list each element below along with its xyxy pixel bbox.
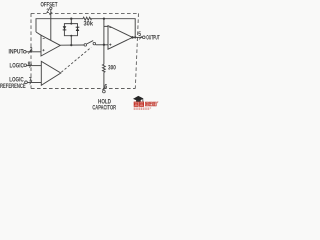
IC package dashed boundary: left edge	[30, 13, 32, 88]
op-amp A2 (output buffer)	[108, 26, 133, 50]
wire: rail corner diagonal into A1 top corner	[36, 32, 41, 35]
wire: resistor down to pin 6	[103, 72, 105, 90]
op-amp A1 (input buffer)	[41, 35, 60, 56]
node: diode loop top	[70, 23, 72, 25]
pin 3 INPUT terminal	[23, 50, 26, 53]
watermark cap icon	[133, 96, 144, 101]
pin 6 HOLD CAPACITOR terminal	[103, 90, 106, 93]
svg-text:300: 300	[108, 64, 116, 71]
wire: switch to hold node / A2 input	[96, 44, 109, 46]
dashed switch control line from comparator to switch arm	[61, 47, 91, 72]
IC package dashed boundary: top edge	[31, 12, 139, 14]
switch arm	[87, 41, 94, 44]
pin 2 OFFSET terminal	[50, 7, 52, 9]
node: rail feedback joins output	[134, 36, 136, 38]
A2 minus mark	[109, 27, 111, 29]
watermark logo (bottom right)	[133, 96, 158, 109]
wire: A2 output to pin 5	[133, 36, 143, 38]
IC package dashed boundary: bottom edge	[31, 88, 135, 90]
diode D1 (left leg, pointing down)	[63, 26, 67, 29]
pin 6 tick	[102, 87, 105, 90]
node: diode loop bottom	[70, 35, 72, 37]
pin 8 tick	[29, 64, 31, 68]
svg-text:INPUT: INPUT	[9, 49, 25, 56]
svg-text:OUTPUT: OUTPUT	[146, 35, 160, 42]
svg-text:6: 6	[104, 83, 107, 90]
pin 2 tick	[50, 12, 53, 15]
wire: rail down past A2 inverting input to hold node	[104, 19, 108, 45]
node: A2 output junction	[131, 36, 134, 39]
pin 8 LOGIC terminal	[24, 64, 27, 67]
svg-text:REFERENCE: REFERENCE	[0, 83, 26, 90]
A1 minus mark	[43, 38, 45, 40]
IC package dashed boundary: right edge (slightly skewed)	[135, 13, 138, 88]
A1 plus mark	[42, 49, 44, 51]
wire: A1 output to switch	[60, 44, 84, 46]
wire: feedback rail from A1 inverting input along top to output node	[36, 19, 135, 38]
resistor 300 (vertical)	[103, 64, 106, 72]
watermark tiny url text row	[134, 108, 152, 109]
node: rail to A2 feedback vertical	[103, 18, 105, 20]
wire: INPUT to A1	[26, 51, 41, 53]
diode D2 (right leg, pointing up)	[76, 26, 80, 28]
pin 7 tick	[30, 81, 32, 85]
svg-text:2: 2	[46, 8, 49, 15]
svg-text:30k: 30k	[84, 21, 94, 28]
switch left contact	[84, 44, 87, 47]
pin 5 tick	[139, 36, 141, 39]
pin 3 tick	[28, 50, 30, 54]
pin 5 OUTPUT terminal	[142, 36, 145, 39]
wire: rail down to diode loop top	[70, 19, 72, 24]
svg-text:3: 3	[30, 46, 33, 53]
background	[0, 0, 160, 110]
node: hold node junction	[103, 44, 105, 46]
node: rail to diode clamp junction	[70, 18, 72, 20]
comparator A3 (logic input stage)	[41, 61, 61, 85]
watermark red square 1	[134, 102, 139, 107]
resistor 30k (in top rail)	[83, 17, 92, 20]
switch right contact	[93, 42, 96, 45]
wire: LOGIC to comparator	[27, 65, 42, 67]
watermark red caption characters	[145, 102, 148, 106]
svg-text:5: 5	[138, 31, 141, 38]
svg-text:LOGIC: LOGIC	[10, 62, 24, 69]
wire: hold node down to resistor	[103, 45, 105, 65]
wire: LOGIC REFERENCE to comparator	[27, 82, 41, 84]
wire: pin 2 down through rail into A1 top edge	[50, 10, 52, 41]
svg-text:CAPACITOR: CAPACITOR	[92, 104, 116, 110]
diode clamp loop box	[64, 24, 77, 36]
node: diode clamp to signal path	[70, 44, 72, 46]
wire: diode loop bottom to signal wire	[70, 36, 72, 45]
svg-text:7: 7	[29, 76, 32, 83]
pin 7 LOGIC REFERENCE terminal	[25, 81, 28, 84]
svg-text:OFFSET: OFFSET	[41, 2, 59, 9]
watermark red square 2	[139, 102, 144, 107]
svg-text:8: 8	[28, 61, 31, 68]
A2 plus mark	[109, 44, 111, 46]
